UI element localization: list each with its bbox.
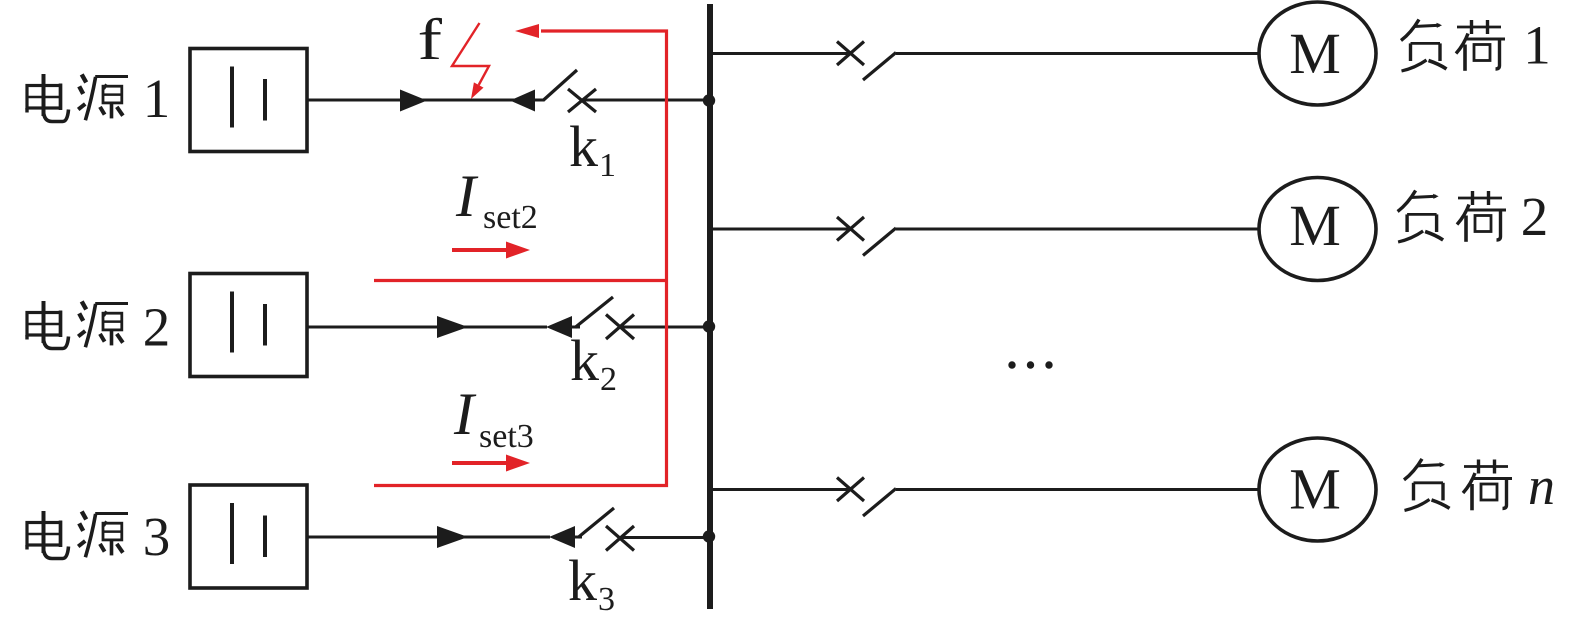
svg-text:2: 2 xyxy=(600,361,617,398)
svg-text:f: f xyxy=(418,7,443,72)
svg-text:M: M xyxy=(1289,193,1341,258)
svg-text:1: 1 xyxy=(1523,15,1551,76)
svg-text:M: M xyxy=(1289,21,1341,86)
svg-text:set2: set2 xyxy=(483,199,538,236)
svg-text:3: 3 xyxy=(143,506,171,567)
svg-text:k: k xyxy=(569,114,598,179)
svg-text:I: I xyxy=(453,381,477,447)
svg-text:k: k xyxy=(568,548,597,613)
svg-text:k: k xyxy=(570,328,599,393)
svg-text:1: 1 xyxy=(599,147,616,184)
svg-text:M: M xyxy=(1289,457,1341,522)
svg-text:set3: set3 xyxy=(479,418,534,455)
svg-text:2: 2 xyxy=(1521,186,1549,247)
svg-text:1: 1 xyxy=(143,68,171,129)
svg-text:n: n xyxy=(1528,456,1555,516)
svg-text:3: 3 xyxy=(598,581,615,618)
svg-text:I: I xyxy=(455,163,479,229)
svg-text:2: 2 xyxy=(143,297,171,358)
